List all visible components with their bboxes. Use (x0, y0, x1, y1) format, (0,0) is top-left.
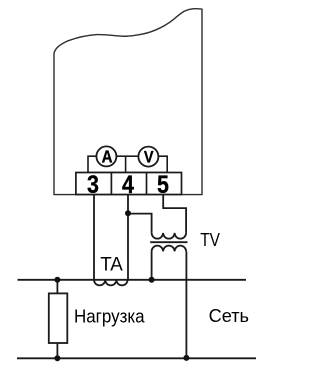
wire terminal 3 down to TA coil (93, 195, 95, 280)
load resistor (Нагрузка) (49, 293, 68, 343)
wire load bottom stub (56, 343, 58, 358)
terminal divider 4|5 (146, 173, 148, 195)
svg-text:Сеть: Сеть (209, 306, 249, 326)
wire TV secondary right leg to bottom bus (185, 251, 187, 358)
device body outline (meter housing, broken wavy top) (54, 9, 202, 195)
top bus wire (line to load) (18, 279, 247, 281)
current transformer TA secondary coil on top bus (94, 280, 128, 286)
svg-text:A: A (102, 148, 113, 167)
svg-text:3: 3 (87, 171, 99, 199)
bottom bus wire (mains return) (17, 357, 256, 359)
junction node: terminal 4 wire / TV primary branch (125, 210, 131, 216)
transformer TV core (150, 241, 187, 243)
svg-text:4: 4 (122, 171, 134, 199)
terminal block (terminals 3,4,5) (76, 173, 182, 195)
wire TV secondary left leg to top bus (151, 251, 153, 279)
ammeter A (circle symbol) (96, 146, 116, 166)
meter row box (two cells under A and V) (88, 156, 167, 172)
transformer TV primary winding (152, 233, 187, 239)
meter row divider (125, 156, 127, 172)
terminal divider 3|4 (110, 173, 112, 195)
svg-text:V: V (144, 149, 154, 167)
wire node 4 branch to TV primary (128, 214, 152, 233)
svg-text:TA: TA (100, 253, 123, 275)
svg-text:Нагрузка: Нагрузка (74, 306, 145, 326)
svg-text:5: 5 (157, 171, 169, 199)
wire terminal 4 down to TA coil (127, 195, 129, 280)
voltmeter V (circle symbol) (138, 147, 158, 167)
junction node: TV secondary / bottom bus (183, 355, 189, 361)
junction node: load / top bus (54, 277, 60, 283)
junction node: TV secondary / top bus (149, 277, 155, 283)
wire terminal 5 to TV primary (163, 195, 186, 233)
wire load top stub (56, 280, 58, 294)
junction node: load / bottom bus (54, 355, 60, 361)
transformer TV secondary winding (152, 246, 187, 252)
svg-text:TV: TV (200, 229, 220, 250)
